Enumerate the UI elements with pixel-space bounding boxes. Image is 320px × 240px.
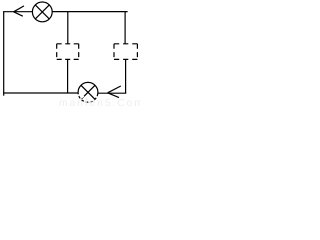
wire: bottom, left corner to lamp L2 <box>3 92 78 94</box>
wire: bottom, lamp L2 to right corner <box>98 92 126 94</box>
wire: left vertical side of loop <box>3 11 5 96</box>
current arrow on bottom wire (pointing left) <box>108 86 121 98</box>
lamp L1 (top) <box>32 2 52 22</box>
wire: top, left corner to lamp L1 <box>3 11 33 13</box>
wire: middle branch, top wire down to left dashed box <box>67 12 69 44</box>
wire: right vertical, top wire down to right dashed box <box>124 12 126 44</box>
svg-text:manfen5.Com: manfen5.Com <box>59 97 141 107</box>
lamp L2 (bottom) <box>78 82 98 102</box>
wire: top, lamp L1 to right corner (slight overshoot) <box>52 11 127 13</box>
dashed box 1 (left component placeholder) <box>57 44 79 60</box>
watermark manfen5.Com <box>78 94 97 102</box>
wire: right vertical, right dashed box down to bottom corner <box>125 59 127 93</box>
dashed box 2 (right component placeholder) <box>114 44 137 60</box>
wire: middle branch, left dashed box down to bottom wire <box>67 59 69 93</box>
current arrow on top wire (pointing left) <box>14 6 24 16</box>
